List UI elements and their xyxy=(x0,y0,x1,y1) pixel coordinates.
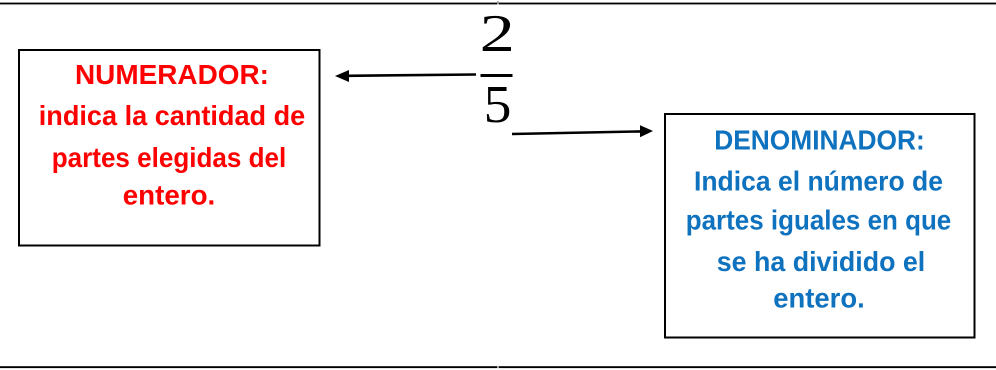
svg-text:entero.: entero. xyxy=(773,283,865,314)
svg-text:partes elegidas del: partes elegidas del xyxy=(52,142,287,173)
arrow to numerator box: shaft xyxy=(348,75,476,76)
fraction numerator digit 2 xyxy=(480,4,515,63)
bottom rule left segment xyxy=(0,366,497,368)
top rule junction tick xyxy=(497,1,499,4)
fraction denominator digit 5 xyxy=(484,75,512,134)
svg-text:Indica el número de: Indica el número de xyxy=(694,165,943,196)
svg-text:partes iguales en que: partes iguales en que xyxy=(686,205,952,236)
svg-text:DENOMINADOR:: DENOMINADOR: xyxy=(714,125,925,156)
bottom rule junction xyxy=(497,366,499,368)
svg-text:NUMERADOR:: NUMERADOR: xyxy=(75,59,269,90)
fraction bar xyxy=(481,74,513,77)
arrow to denominator box: shaft xyxy=(512,131,641,134)
numerator box xyxy=(19,50,320,246)
arrow to denominator box: head xyxy=(640,125,653,137)
top rule left segment xyxy=(0,3,497,5)
svg-text:se ha dividido el: se ha dividido el xyxy=(717,246,926,277)
bottom rule right segment xyxy=(499,366,996,368)
svg-text:entero.: entero. xyxy=(123,180,216,211)
top rule right segment xyxy=(499,3,996,5)
svg-text:2: 2 xyxy=(480,4,515,63)
svg-text:indica la cantidad de: indica la cantidad de xyxy=(39,100,306,131)
arrow to numerator box: head xyxy=(335,70,349,82)
svg-text:5: 5 xyxy=(484,75,512,134)
denominator box xyxy=(665,114,975,338)
